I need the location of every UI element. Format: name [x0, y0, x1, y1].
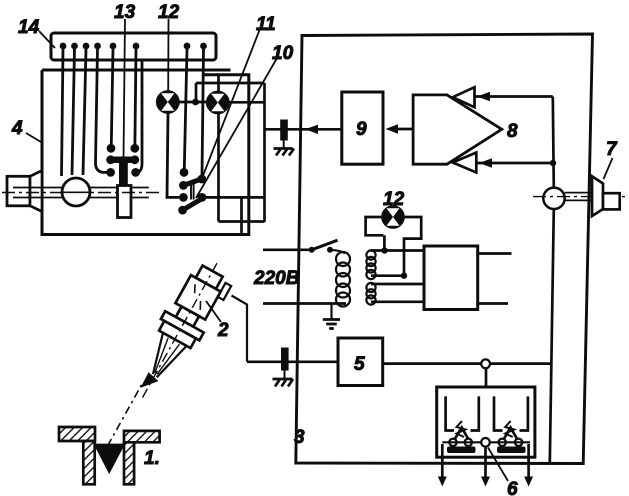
transformer primary winding [336, 252, 350, 307]
contact 10 arm F-E [183, 198, 203, 210]
actuator link (double line) [191, 182, 194, 200]
center open node [481, 438, 490, 447]
box 3 (electronic unit) outline [296, 34, 593, 464]
signal lamp 12 (right) [382, 206, 403, 227]
right pen unit electrodes [494, 396, 528, 430]
switch pivot dot [309, 247, 315, 253]
mains wire bottom [263, 302, 346, 305]
left pen unit spring [457, 421, 466, 437]
label 2 [206, 301, 229, 341]
shaft centerline (dash-dot) [2, 192, 160, 194]
ground stub (bottom cap) [284, 371, 286, 379]
rectifier output wires [478, 254, 512, 304]
label 13 [114, 2, 136, 158]
signal lamp 11-area (right lamp in box 4) [207, 92, 229, 114]
wire pin8 down to contact 11 [202, 49, 204, 175]
label 11 [203, 14, 276, 177]
wire vertical from top wire to rotary joint [553, 97, 554, 188]
contact rail wire [442, 441, 530, 443]
svg-text:3: 3 [294, 427, 305, 448]
shaft centerline right (dash-dot) [533, 196, 628, 198]
chassis ground (bottom cap) [273, 379, 294, 387]
shaft to external knob [565, 193, 592, 201]
wire bus y83 [196, 82, 265, 85]
switch fixed contact dot [327, 247, 333, 253]
transducer triangle (bottom) [453, 153, 477, 173]
wire pin3 down [83, 49, 86, 175]
measuring roller (circle) [62, 178, 90, 206]
junction lamp left lead [381, 247, 387, 253]
wire secondary2 bottom to rectifier [371, 300, 424, 303]
svg-text:4: 4 [11, 118, 23, 139]
ultrasonic beam (dash-dot ray) [108, 384, 143, 446]
output arrow middle [481, 447, 490, 487]
connector block 14 [51, 33, 216, 60]
wire from rotary joint down [550, 209, 554, 463]
label 4 [11, 118, 41, 142]
wire vertical x241.5 to box bottom [240, 197, 243, 234]
contact 11 moving dot B [197, 175, 206, 184]
open node on wire [481, 359, 490, 368]
rotary joint circle 7 [543, 188, 564, 209]
box 4 (scanning carriage unit) outline [42, 70, 249, 235]
left pen unit tent [453, 428, 470, 443]
right unit ink pad [497, 447, 526, 454]
feedthrough capacitor (bottom) body [281, 348, 289, 371]
wire pin2 down [72, 49, 75, 175]
contact dot F [178, 206, 187, 215]
transformer secondary winding (bottom) [366, 283, 375, 305]
ground stub (top cap) [283, 141, 285, 149]
drive knob (left) [7, 176, 30, 206]
output arrow left [438, 444, 447, 487]
chassis ground (top cap) [274, 149, 295, 156]
probe 2 (angle transducer) [123, 253, 238, 411]
contact arm C-B [183, 179, 201, 185]
mechanism 13 contact dots [106, 144, 140, 177]
transformer secondary winding (top) [366, 250, 375, 279]
svg-text:8: 8 [507, 121, 518, 142]
lamp 12 right lead [404, 217, 422, 276]
mains wire top [263, 248, 312, 251]
wire lamp1 bottom lead to contact D [167, 113, 179, 198]
earth symbol [323, 320, 340, 329]
external knob (right) [603, 193, 620, 209]
workpiece 1: right web (hatched) [124, 442, 134, 484]
wire secondary2 top to rectifier [371, 283, 424, 286]
svg-text:1.: 1. [144, 448, 160, 469]
left pen unit electrodes [446, 396, 479, 430]
wire junction up to bus [195, 83, 198, 102]
shaft lines [13, 188, 149, 198]
probe 2 cable [232, 296, 248, 362]
external cone (right) [592, 176, 603, 216]
svg-text:12: 12 [383, 189, 405, 210]
label 14 [18, 17, 55, 48]
wire secondary1 bottom [371, 274, 404, 277]
wire secondary1 top to rectifier [371, 249, 424, 252]
right unit contact circles [499, 439, 523, 446]
transducer triangle (top) [453, 87, 475, 107]
svg-text:7: 7 [606, 139, 618, 160]
block 9 [342, 92, 383, 164]
block 8 (amplifier, pentagon) [413, 95, 502, 164]
arrowhead (top triangle wire) [477, 92, 490, 101]
label 10 [196, 43, 294, 198]
workpiece 1: left web (hatched) [83, 441, 94, 484]
feedthrough capacitor (bottom) wire [247, 360, 338, 363]
wire pin4 down to contact of mechanism 13 [96, 49, 107, 172]
lamp 12 left lead [366, 217, 385, 251]
junction node [550, 160, 556, 166]
workpiece 1: right flange (hatched) [124, 431, 160, 442]
signal lamp 12 (left) [157, 91, 179, 113]
workpiece 1: left flange (hatched) [59, 427, 95, 441]
plunger under mechanism 13 [118, 186, 132, 218]
svg-text:5: 5 [354, 354, 365, 375]
block 5 [338, 338, 383, 386]
svg-text:6: 6 [507, 479, 518, 496]
wire between lamps [179, 101, 207, 104]
wire lamp2 bottom lead [217, 113, 220, 221]
contact dot C [179, 181, 188, 190]
junction lamp right lead [401, 273, 407, 279]
contact dot E [198, 193, 207, 202]
label 6 [488, 448, 518, 496]
svg-text:14: 14 [18, 17, 40, 38]
wire contact output to right [206, 196, 265, 199]
arrowhead into block 9 [386, 124, 399, 133]
wire block5 to right [383, 362, 551, 365]
switch blade [312, 240, 338, 250]
contact dot D [179, 193, 188, 202]
svg-text:9: 9 [356, 119, 367, 140]
wire lamp row to right vertical [229, 101, 265, 104]
weld defect (black triangle) [93, 444, 125, 475]
svg-text:220В: 220В [253, 268, 300, 289]
svg-text:2: 2 [217, 320, 229, 341]
block 6 (recorder) outline [437, 387, 535, 457]
rectifier block [424, 246, 478, 310]
label 7 [604, 139, 619, 179]
wire lamp2 top lead [217, 75, 220, 92]
contact 11 upper: fixed dot A [180, 168, 189, 177]
drive cone [30, 171, 42, 212]
wire y222 [219, 220, 265, 223]
pin dots on block 14 [60, 43, 207, 50]
feedthrough capacitor (top) wire from box4 [265, 128, 342, 131]
left unit ink pad [447, 447, 476, 454]
wire node down to block 6 [485, 368, 488, 387]
line inside roller [63, 191, 89, 193]
wire block8 to block9 [391, 128, 413, 131]
wire into top triangle [475, 95, 553, 98]
label 12 (left lamp) [158, 2, 180, 91]
wire pin6 down to mechanism 13 [135, 49, 136, 144]
right pen unit tent [502, 428, 519, 443]
junction node between lamps [192, 99, 199, 106]
wire right vertical x264 [263, 83, 266, 222]
output arrow right [524, 444, 533, 487]
wire to mechanism 13 right lower contact [138, 61, 143, 173]
wire pin5 down to mechanism 13 [111, 49, 113, 144]
feedthrough capacitor (top) body [280, 120, 288, 141]
right pen unit spring [505, 421, 514, 437]
wire to primary top [330, 250, 345, 254]
earth stub [330, 304, 332, 320]
arrowhead into box4 [305, 125, 318, 134]
mechanism 13 T-slider (black) [112, 157, 134, 187]
wire pin7 down to contact 11 [184, 49, 187, 169]
arrowhead (bottom triangle wire) [479, 158, 492, 167]
left unit contact circles [449, 439, 472, 446]
wire pin1 down [62, 49, 64, 176]
wire into bottom triangle [476, 162, 553, 165]
